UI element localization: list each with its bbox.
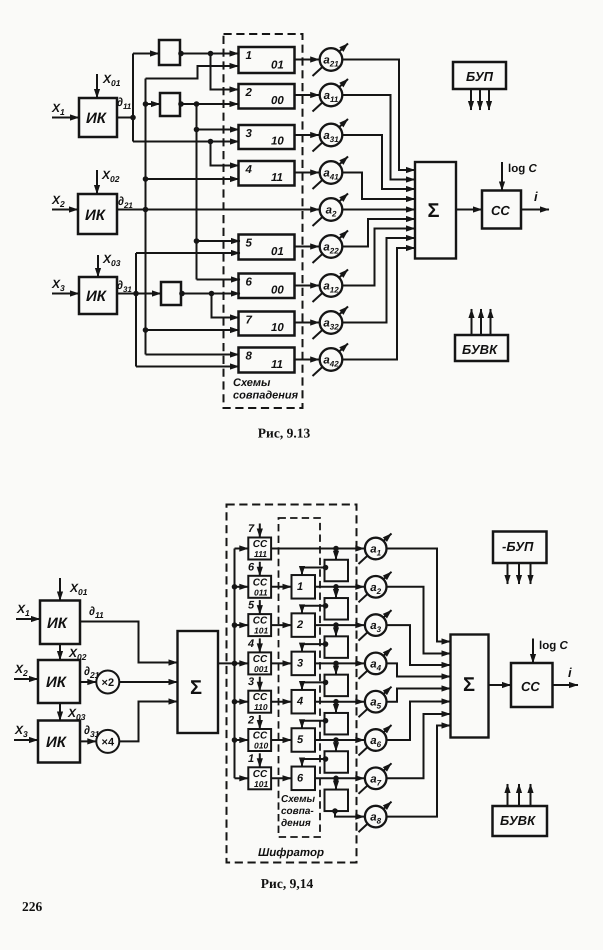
circle a4 <box>365 653 387 675</box>
input X02 wire (bottom) <box>59 644 61 660</box>
wire CC to block 2 <box>271 624 291 626</box>
coincidence block 3 (code 10) <box>239 125 295 149</box>
label 1 with arrow into CC <box>248 753 260 768</box>
svg-text:Σ: Σ <box>428 200 440 222</box>
wire a6 to summator2 <box>387 702 451 741</box>
svg-text:БУВК: БУВК <box>500 813 536 828</box>
coincidence block 6 (code 00) <box>239 274 295 299</box>
junction line 2 square feed <box>333 584 339 590</box>
junction square 6 left <box>323 756 329 762</box>
svg-text:7: 7 <box>246 315 253 327</box>
multiplier x2 <box>96 671 119 694</box>
wire branch to block4 in1 <box>211 142 240 166</box>
junction line 4 square feed <box>333 661 339 667</box>
summator block (sigma) <box>415 162 456 259</box>
wire IK2 to x2-multiplier <box>80 681 96 683</box>
wire d21 to inverter V2 <box>146 103 161 105</box>
wire a-circle y172.5 to summator <box>342 173 415 200</box>
svg-text:совпа-: совпа- <box>281 806 314 817</box>
svg-text:ИК: ИК <box>85 207 107 224</box>
adjust arrow of a8 <box>359 802 392 833</box>
block CC 6 (code 011) <box>248 576 271 598</box>
svg-text:ИК: ИК <box>86 110 108 127</box>
wire square 1 to block 1 top <box>302 568 325 576</box>
circle a6 <box>365 729 387 751</box>
svg-text:110: 110 <box>254 702 268 712</box>
wire square 2 to block 2 top <box>302 606 325 614</box>
junction V1 out <box>208 51 214 57</box>
svg-text:X3: X3 <box>14 723 28 739</box>
svg-text:БУП: БУП <box>466 69 494 84</box>
wire trunk to CC row 5 <box>235 701 249 703</box>
svg-text:X2: X2 <box>14 662 28 678</box>
svg-text:111: 111 <box>254 549 267 559</box>
svg-text:00: 00 <box>271 285 284 297</box>
block IK1 bottom <box>40 601 80 645</box>
adjust arrow of a2 <box>313 194 349 227</box>
svg-text:6: 6 <box>248 561 255 573</box>
junction square 2 left <box>323 603 329 609</box>
wire a5 to summator2 <box>387 689 451 702</box>
svg-text:X03: X03 <box>102 252 121 268</box>
wire block 4 output to a5 <box>315 701 364 703</box>
svg-text:011: 011 <box>254 587 268 597</box>
input X01 wire <box>96 74 98 98</box>
svg-text:log C: log C <box>539 640 568 652</box>
svg-text:8: 8 <box>246 351 253 363</box>
adjust arrow of a5 <box>359 687 392 718</box>
adjust arrow of a4 <box>359 648 392 679</box>
wire d21 top to block1 in2 <box>146 66 239 79</box>
junction square 4 left <box>323 680 329 686</box>
junction on y141 <box>208 139 214 145</box>
adjust arrow of a41 <box>313 157 349 190</box>
adjust arrow of a3 <box>359 610 392 641</box>
block IK3 bottom <box>38 721 80 763</box>
circle a32 <box>320 311 343 334</box>
svg-text:Σ: Σ <box>190 677 202 699</box>
svg-text:×4: ×4 <box>102 736 115 748</box>
wire d11 to summator1 <box>80 622 178 663</box>
wire block output to circle a41 <box>295 172 320 174</box>
circle a21 <box>320 48 343 71</box>
junction square 1 left <box>323 565 329 571</box>
svg-text:СС: СС <box>521 679 540 694</box>
adjust arrow of a1 <box>359 534 392 565</box>
block IK2 bottom <box>38 660 80 703</box>
coincidence block 5 (coder) <box>292 728 316 752</box>
wire summator1 output to CC 001 <box>218 662 248 664</box>
svg-text:11: 11 <box>271 172 283 184</box>
BUP down arrows <box>471 89 489 110</box>
svg-text:10: 10 <box>271 322 284 334</box>
svg-text:5: 5 <box>246 238 253 250</box>
wire a-circle y95 to summator <box>342 95 415 180</box>
junction trunk feed <box>232 661 238 667</box>
svg-text:ИК: ИК <box>46 734 68 751</box>
wire a-circle y359.5 to summator <box>342 248 415 360</box>
wire CC to block 5 <box>271 739 291 741</box>
junction d11 trunk <box>130 115 136 121</box>
input X2 wire (bottom) <box>14 678 38 680</box>
block CC (bottom) <box>511 663 553 707</box>
wire V1 output to block1 in1 <box>180 53 239 55</box>
wire log C input (bottom) <box>532 639 534 664</box>
wire trunk to CC row 7 <box>235 777 249 779</box>
adjust arrow of a42 <box>313 344 349 377</box>
block BUP (top) <box>453 62 506 89</box>
delay square 3 <box>325 636 349 658</box>
circle a42 <box>320 348 343 371</box>
coincidence block 4 (coder) <box>292 690 316 714</box>
wire to block6 in1 <box>197 279 241 281</box>
svg-text:ИК: ИК <box>86 288 108 305</box>
wire IK3 to x4-multiplier <box>80 740 96 742</box>
coincidence block 4 (code 11) <box>239 161 295 186</box>
block BUVK (top) <box>455 335 508 361</box>
block BUP (bottom) <box>493 532 547 564</box>
coincidence block 3 (coder) <box>292 652 316 676</box>
block CC 4 (code 001) <box>248 652 271 674</box>
delay square 6 <box>325 751 349 773</box>
block CC 3 (code 110) <box>248 691 271 713</box>
inner dashed box (coincidence circuits) <box>279 518 321 837</box>
junction trunk row 6 <box>232 737 238 743</box>
svg-text:X1: X1 <box>16 602 30 618</box>
svg-text:3: 3 <box>248 676 254 688</box>
wire line 3 into square 3 <box>335 625 337 636</box>
svg-text:6: 6 <box>297 772 304 784</box>
BUP bottom down arrows <box>508 563 531 584</box>
svg-text:X01: X01 <box>69 581 88 597</box>
svg-text:11: 11 <box>271 359 283 371</box>
wire d11 to block3 in2 <box>133 141 239 143</box>
input X2 wire <box>52 209 78 211</box>
wire d11 to inverter V1 <box>133 53 159 55</box>
wire a-circle y285.5 to summator <box>342 229 415 286</box>
svg-text:БУВК: БУВК <box>462 342 498 357</box>
adjust arrow of a12 <box>313 270 349 303</box>
svg-text:101: 101 <box>254 779 268 789</box>
junction V3 out <box>209 291 215 297</box>
svg-text:i: i <box>568 665 572 680</box>
junction trunk row 2 <box>232 584 238 590</box>
junction square 3 left <box>323 641 329 647</box>
coincidence block 6 (coder) <box>292 767 316 791</box>
junction V2 out <box>194 101 200 107</box>
svg-text:001: 001 <box>254 664 268 674</box>
delay square 2 <box>325 598 349 620</box>
block IK2 <box>78 194 117 234</box>
wire line 1 into square 1 <box>335 549 337 560</box>
BUVK up arrows <box>472 309 491 335</box>
trunk x136 (d31) <box>135 253 137 367</box>
inverter square V2 <box>160 93 180 116</box>
svg-text:-БУП: -БУП <box>502 539 534 554</box>
wire block output to circle a11 <box>295 94 320 96</box>
junction line 6 square feed <box>333 737 339 743</box>
junction block7 in2 <box>143 327 149 333</box>
circle a7 <box>365 768 387 790</box>
wire square 4 to block 4 top <box>302 682 325 690</box>
svg-text:5: 5 <box>248 600 255 612</box>
junction line 1 square feed <box>333 546 339 552</box>
wire block output to circle a12 <box>295 285 320 287</box>
junction line 5 square feed <box>333 699 339 705</box>
svg-text:X03: X03 <box>67 706 86 722</box>
label Schemy sovpa-deniya <box>281 794 315 829</box>
junction at V2 box edge <box>178 101 184 107</box>
junction block5 in1 <box>194 238 200 244</box>
wire trunk to CC row 2 <box>235 586 249 588</box>
wire V3 output to block6 in2 <box>181 293 240 295</box>
svg-text:совпадения: совпадения <box>233 390 299 402</box>
coincidence block 1 (code 01) <box>239 47 295 73</box>
dashed box: coincidence circuits <box>224 34 303 408</box>
wire block output to circle a32 <box>295 322 320 324</box>
svg-text:01: 01 <box>271 60 284 72</box>
input X03 wire <box>97 255 99 277</box>
svg-text:101: 101 <box>254 626 268 636</box>
multiplier x4 <box>96 730 119 753</box>
adjust arrow of a32 <box>313 307 349 340</box>
junction block3 in1 <box>194 127 200 133</box>
circle a3 <box>365 614 387 636</box>
coincidence block 1 (coder) <box>292 575 316 599</box>
delay square 7 <box>325 790 349 812</box>
svg-text:Σ: Σ <box>463 674 475 696</box>
svg-text:1: 1 <box>246 50 252 62</box>
inverter square V3 <box>161 282 181 305</box>
wire line 2 into square 2 <box>335 587 337 598</box>
wire block 6 output to a7 <box>315 777 364 779</box>
svg-text:010: 010 <box>254 741 268 751</box>
input X02 wire <box>96 170 98 194</box>
block CC 2 (code 010) <box>248 729 271 751</box>
wire trunk to CC row 1 <box>235 548 249 550</box>
svg-text:Рис, 9.13: Рис, 9.13 <box>258 426 311 441</box>
coincidence block 8 (code 11) <box>239 348 295 373</box>
svg-text:X3: X3 <box>51 277 65 293</box>
wire a-circle y59.5 to summator <box>342 60 415 171</box>
svg-text:∂11: ∂11 <box>117 95 132 111</box>
block CC 7 (code 111) <box>248 538 271 560</box>
junction d31 trunk <box>133 291 139 297</box>
wire a8 to summator2 <box>387 726 451 817</box>
svg-text:X2: X2 <box>51 193 65 209</box>
outer dashed box (coder) <box>227 505 357 863</box>
svg-text:2: 2 <box>245 87 253 99</box>
svg-text:X1: X1 <box>51 101 65 117</box>
circle a8 <box>365 806 387 828</box>
wire block 5 output to a6 <box>315 739 364 741</box>
wire V2 output to block2 in2 <box>180 103 239 105</box>
svg-text:3: 3 <box>297 657 303 669</box>
wire trunk to CC row 3 <box>235 624 249 626</box>
svg-text:6: 6 <box>246 277 253 289</box>
circle a11 <box>320 84 343 107</box>
svg-text:X02: X02 <box>101 168 120 184</box>
junction at V1 box edge <box>178 51 184 57</box>
coincidence block 7 (code 10) <box>239 312 295 336</box>
circle a31 <box>320 124 343 147</box>
wire line 5 into square 5 <box>335 702 337 713</box>
svg-text:5: 5 <box>297 734 304 746</box>
adjust arrow of a2 <box>359 572 392 603</box>
wire CC 111 output to a1 <box>271 548 364 550</box>
wire d21 to block8 in1 <box>146 354 240 356</box>
svg-text:1: 1 <box>248 753 254 765</box>
svg-text:1: 1 <box>297 581 303 593</box>
svg-text:X02: X02 <box>68 646 87 662</box>
junction line 3 square feed <box>333 622 339 628</box>
junction block4 in2 <box>143 176 149 182</box>
svg-text:2: 2 <box>296 619 303 631</box>
wire output i bottom <box>553 684 579 686</box>
wire block 3 output to a4 <box>315 662 364 664</box>
wire square 6 to block 6 top <box>302 759 325 767</box>
wire log C input <box>501 162 503 191</box>
adjust arrow of a6 <box>359 725 392 756</box>
label 5 with arrow into CC <box>248 600 260 615</box>
svg-text:ИК: ИК <box>47 615 69 632</box>
input X3 wire (bottom) <box>14 739 38 741</box>
svg-text:Схемы: Схемы <box>281 794 315 805</box>
wire a-circle y322.5 to summator <box>342 238 415 323</box>
svg-text:2: 2 <box>247 715 254 727</box>
wire square 3 to block 3 top <box>302 644 325 652</box>
wire line 7 into square 7 <box>335 778 337 789</box>
wire a1 to summator2 <box>387 549 451 642</box>
input X01 wire (bottom) <box>59 578 61 601</box>
svg-text:226: 226 <box>22 899 43 914</box>
svg-text:log C: log C <box>508 163 537 175</box>
summator2 block (sigma) <box>451 635 489 738</box>
adjust arrow of a21 <box>313 44 349 77</box>
block CC 1 (code 101) <box>248 767 271 789</box>
junction at V3 box edge <box>179 291 185 297</box>
wire d21 to block7 in2 <box>146 329 240 331</box>
circle a41 <box>320 161 343 184</box>
wire CC to block 3 <box>271 662 291 664</box>
svg-text:10: 10 <box>271 136 284 148</box>
svg-text:дения: дения <box>281 818 311 829</box>
label 2 with arrow into CC <box>247 715 260 730</box>
svg-text:Шифратор: Шифратор <box>258 847 324 859</box>
label 4 with arrow into CC <box>247 638 260 653</box>
svg-text:∂31: ∂31 <box>117 278 132 294</box>
wire CC to block 6 <box>271 777 291 779</box>
wire square 7 to line a8 <box>335 811 364 817</box>
svg-text:Рис, 9,14: Рис, 9,14 <box>261 876 314 891</box>
wire block output to circle a21 <box>295 59 320 61</box>
circle a1 <box>365 538 387 560</box>
junction d21-V2 <box>143 101 149 107</box>
svg-text:∂11: ∂11 <box>89 604 104 620</box>
wire line 6 into square 6 <box>335 740 337 751</box>
wire square 5 to block 5 top <box>302 721 325 729</box>
adjust arrow of a22 <box>313 231 349 264</box>
circle a22 <box>320 235 343 258</box>
label 6 with arrow into CC <box>248 561 260 576</box>
wire block output to circle a31 <box>295 134 320 136</box>
block BUVK (bottom) <box>493 806 548 836</box>
svg-text:ИК: ИК <box>46 674 68 691</box>
svg-text:×2: ×2 <box>102 677 115 689</box>
wire d31 to block8 in2 <box>136 366 239 368</box>
input X3 wire <box>52 293 79 295</box>
input X03 wire (bottom) <box>59 703 61 721</box>
inverter square V1 <box>159 40 180 65</box>
wire CC to block 4 <box>271 701 291 703</box>
BUVK bottom up arrows <box>508 784 531 806</box>
wire d21 long line to a2 circle <box>117 209 319 211</box>
label 7 with arrow into CC <box>248 523 260 538</box>
adjust arrow of a11 <box>313 79 349 112</box>
delay square 4 <box>325 675 349 697</box>
wire a4 to summator2 <box>387 663 451 676</box>
wire x2 to summator1 <box>119 681 177 683</box>
svg-text:01: 01 <box>271 246 284 258</box>
wire V1 out branch to block2 in1 <box>211 54 239 90</box>
junction line 7 square feed <box>333 776 339 782</box>
label 3 with arrow into CC <box>248 676 260 691</box>
svg-text:∂21: ∂21 <box>118 194 133 210</box>
svg-text:4: 4 <box>245 164 253 176</box>
summator1 block (sigma) <box>178 631 219 733</box>
coincidence block 2 (code 00) <box>239 84 295 109</box>
wire a-circle y135 to summator <box>342 135 415 189</box>
block CC (top) <box>482 191 521 229</box>
coincidence block 2 (coder) <box>292 613 316 637</box>
block IK1 (measuring unit) <box>79 98 117 137</box>
circle a2 <box>320 198 343 221</box>
delay square 1 <box>325 560 349 582</box>
svg-text:7: 7 <box>248 523 255 535</box>
wire summator to CC <box>456 209 482 211</box>
circle a2 <box>365 576 387 598</box>
block CC 5 (code 101) <box>248 614 271 636</box>
wire block 1 output to a2 <box>315 586 364 588</box>
wire to block5 in1 <box>197 240 241 242</box>
input X1 wire (bottom) <box>16 618 40 620</box>
circle a12 <box>320 274 343 297</box>
junction trunk row 5 <box>232 699 238 705</box>
svg-text:4: 4 <box>296 696 303 708</box>
wire block output to circle a42 <box>295 359 320 361</box>
junction d21 line <box>143 207 149 213</box>
wire x4 to summator1 <box>119 702 177 742</box>
adjust arrow of a7 <box>359 763 392 794</box>
trunk x196 (inverted d21) <box>196 104 198 280</box>
coder trunk vertical <box>234 549 236 779</box>
block IK3 <box>79 277 117 314</box>
wire a-circle y246.5 to summator <box>342 219 415 247</box>
wire a2 to summator2 <box>387 587 451 654</box>
delay square 5 <box>325 713 349 735</box>
svg-text:Схемы: Схемы <box>233 377 271 389</box>
junction square 7 bottom <box>332 808 338 814</box>
trunk x145 (d21) <box>145 79 147 355</box>
wire line 4 into square 4 <box>335 663 337 674</box>
svg-text:00: 00 <box>271 95 284 107</box>
svg-text:4: 4 <box>247 638 254 650</box>
wire trunk to CC row 6 <box>235 739 249 741</box>
label Schemy sovpadeniya <box>233 377 299 402</box>
wire output i <box>521 209 549 211</box>
wire CC to block 1 <box>271 586 291 588</box>
svg-text:i: i <box>534 189 538 204</box>
